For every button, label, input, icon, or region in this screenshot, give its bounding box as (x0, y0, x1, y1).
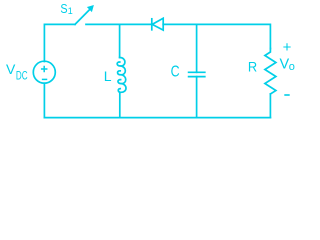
wire top rail diode to right corner, down to resistor (163, 24, 270, 48)
inductor L coil (117, 58, 126, 93)
capacitor C bottom plate (189, 76, 205, 78)
wire top rail left segment (source top to switch pivot) (44, 24, 75, 61)
switch arrowhead (88, 6, 94, 12)
resistor R zigzag (265, 49, 276, 95)
wire L branch vertical from top rail (119, 24, 121, 57)
source plus sign (42, 67, 47, 72)
label minus output (284, 94, 289, 96)
svg-text:+: + (283, 39, 292, 56)
wire bottom rail (44, 117, 270, 119)
svg-text:R: R (248, 59, 257, 75)
svg-text:C: C (171, 63, 180, 80)
wire R branch vertical to bottom rail (269, 94, 271, 118)
svg-text:L: L (104, 68, 112, 84)
source V_DC circle (33, 61, 55, 83)
diode D cathode bar (151, 19, 153, 30)
svg-text:1: 1 (68, 6, 73, 16)
source minus sign (43, 78, 47, 80)
wire C branch vertical from bottom plate to bottom rail (196, 77, 198, 118)
svg-text:V: V (6, 61, 16, 77)
switch S1 arm with arrow (75, 9, 91, 25)
capacitor C top plate (189, 71, 205, 73)
svg-text:o: o (289, 61, 295, 73)
wire top rail right of switch to diode (86, 23, 151, 25)
wire L branch vertical to bottom rail (119, 92, 121, 117)
wire source bottom vertical (43, 83, 45, 117)
svg-text:DC: DC (16, 69, 28, 83)
diode D triangle (152, 18, 163, 30)
wire C branch vertical from top rail to top plate (196, 24, 198, 72)
